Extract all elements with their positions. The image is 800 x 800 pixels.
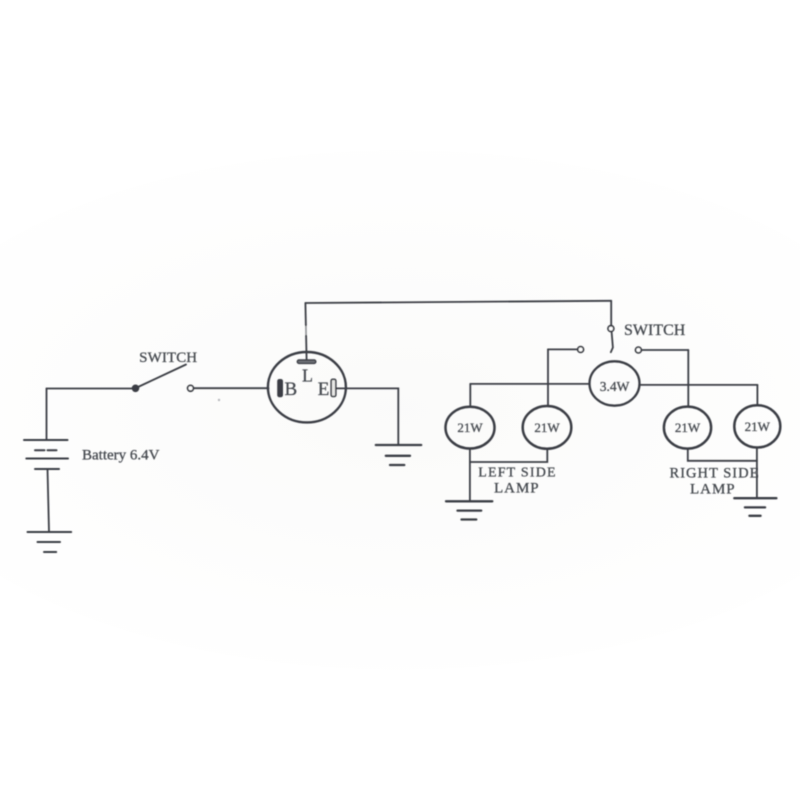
label relay pin E xyxy=(318,379,330,400)
label relay pin L xyxy=(302,366,313,386)
wire left contact down to lamp L2 xyxy=(547,349,549,406)
wire battery top vertical xyxy=(46,389,48,440)
svg-text:SWITCH: SWITCH xyxy=(139,350,197,366)
ground G1 (battery) xyxy=(28,532,72,552)
label LEFT SIDE xyxy=(478,466,557,481)
label 21W (L3) xyxy=(675,420,701,435)
relay terminal E bar xyxy=(331,379,336,396)
flasher relay U1 body xyxy=(268,352,346,422)
switch SW1 xyxy=(133,365,194,392)
lamp L1 21W xyxy=(446,407,495,449)
wire relay L up xyxy=(303,303,308,360)
svg-text:LAMP: LAMP xyxy=(494,481,540,497)
label 21W (L1) xyxy=(457,420,483,435)
wire lamp L3 bottom joining L4 xyxy=(688,449,757,461)
svg-text:21W: 21W xyxy=(534,420,560,435)
svg-text:3.4W: 3.4W xyxy=(600,379,630,394)
wire lamp L4 bottom to ground xyxy=(756,448,758,498)
label RIGHT SIDE xyxy=(670,465,760,481)
label 21W (L2) xyxy=(534,420,560,435)
wire bus right end down to lamp L4 xyxy=(756,385,758,406)
battery B1 Battery 6.4V xyxy=(24,440,68,469)
wire lamp L1 bottom to ground xyxy=(469,449,471,501)
wire SW1 to relay B xyxy=(194,387,269,389)
wire battery negative vertical xyxy=(48,469,50,532)
label SWITCH (SW2) xyxy=(624,322,686,339)
svg-text:LEFT SIDE: LEFT SIDE xyxy=(478,466,557,481)
svg-text:SWITCH: SWITCH xyxy=(624,322,686,339)
relay terminal B bar xyxy=(278,380,283,397)
svg-text:21W: 21W xyxy=(745,419,771,434)
label relay pin B xyxy=(285,379,298,400)
relay terminal L bar xyxy=(297,360,316,363)
pilot lamp L0 3.4W xyxy=(590,361,640,405)
svg-text:RIGHT SIDE: RIGHT SIDE xyxy=(670,465,760,481)
label 21W (L4) xyxy=(745,419,771,434)
label LAMP (left) xyxy=(494,481,540,497)
label LAMP (right) xyxy=(690,482,736,498)
wire right contact down to lamp L3 xyxy=(687,350,689,407)
svg-text:21W: 21W xyxy=(457,420,483,435)
ground G3 (right lamps) xyxy=(734,498,776,516)
svg-text:LAMP: LAMP xyxy=(690,482,736,498)
svg-text:L: L xyxy=(302,366,313,386)
lamp L3 21W xyxy=(664,407,711,449)
svg-text:B: B xyxy=(285,379,298,400)
lamp L4 21W xyxy=(734,405,780,447)
wire bus left segment xyxy=(470,383,589,385)
switch SW2 right contact xyxy=(636,347,689,353)
wire top link drop to SW2 xyxy=(610,301,612,326)
wire battery positive to switch SW1 xyxy=(47,388,133,390)
node speck xyxy=(218,399,220,401)
switch SW2 pole xyxy=(608,326,614,353)
label SWITCH (SW1) xyxy=(139,350,197,366)
svg-text:Battery 6.4V: Battery 6.4V xyxy=(82,448,160,464)
switch SW2 left contact xyxy=(548,347,583,353)
svg-text:21W: 21W xyxy=(675,420,701,435)
lamp L2 21W xyxy=(523,406,572,449)
wire relay E to ground xyxy=(336,388,399,444)
label Battery 6.4V xyxy=(82,448,160,464)
wire top link horizontal xyxy=(305,301,611,303)
ground G2 (left lamps) xyxy=(446,501,492,519)
ground G4 (relay) xyxy=(376,445,421,465)
wire bus right segment xyxy=(640,384,758,386)
wire bus left end down to lamp L1 xyxy=(469,384,471,407)
label 3.4W xyxy=(600,379,630,394)
svg-text:E: E xyxy=(318,379,330,400)
wire lamp L2 bottom joining L1 xyxy=(470,449,547,462)
